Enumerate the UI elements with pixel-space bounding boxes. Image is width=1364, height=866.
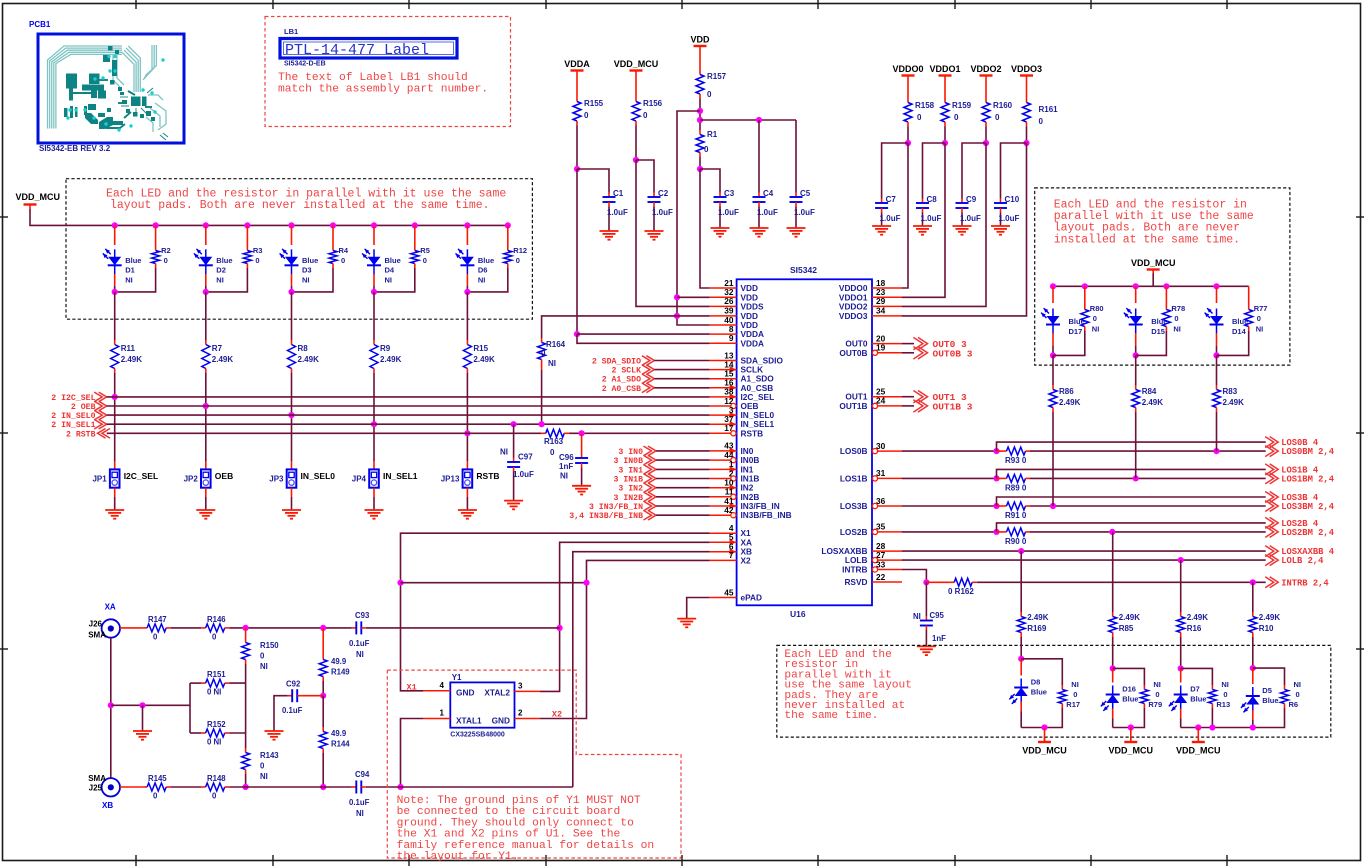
power flag VDD_MCU under D7 — [1176, 724, 1221, 755]
svg-text:C7: C7 — [886, 195, 897, 204]
wire JP2 to ground — [205, 488, 207, 510]
U16 pin 1 IN1 — [710, 459, 754, 474]
net label A0_CSB — [602, 383, 655, 394]
svg-text:1: 1 — [440, 709, 445, 718]
svg-text:0: 0 — [1155, 690, 1159, 699]
resistor R160 — [982, 80, 1013, 127]
wire VDDA net down to U16 pins 8/9 — [574, 126, 710, 344]
U16 pin 4 X1 — [710, 523, 751, 538]
svg-text:0: 0 — [423, 256, 427, 265]
resistor R91 0 — [1002, 502, 1030, 520]
svg-text:R89 0: R89 0 — [1005, 483, 1027, 492]
capacitor C10 — [994, 195, 1020, 226]
U16 pin 10 IN2 — [710, 478, 754, 493]
svg-text:45: 45 — [724, 587, 734, 597]
resistor R164 (0, NI) VDD to IN_SEL1 — [538, 338, 566, 427]
U16 pin 28 LOSXAXBB — [821, 541, 902, 556]
power flag VDD_MCU (top-right) — [1131, 258, 1176, 274]
svg-text:34: 34 — [876, 306, 886, 316]
svg-text:R143: R143 — [260, 751, 279, 760]
svg-text:9: 9 — [729, 333, 734, 343]
svg-text:R163: R163 — [544, 437, 564, 446]
svg-text:Note: The ground pins of Y1 M: Note: The ground pins of Y1 MUST NOT — [397, 795, 641, 807]
resistor R13 (NI 0) — [1181, 668, 1230, 727]
svg-text:0: 0 — [1257, 314, 1261, 323]
Y1 pin 4 — [423, 681, 450, 691]
wire ePAD to ground — [687, 598, 710, 619]
wire net INTRB — [902, 570, 1266, 586]
svg-text:D8: D8 — [1031, 678, 1041, 687]
U16 pin 27 LOLB — [845, 550, 902, 565]
net label OUT0B (right) — [902, 347, 973, 360]
svg-text:VDDO0: VDDO0 — [892, 64, 923, 74]
svg-text:R155: R155 — [584, 99, 604, 108]
op-amp U16 Si5342 IC body — [737, 265, 872, 619]
svg-text:2.49K: 2.49K — [380, 355, 402, 364]
wire net OEB bus — [107, 405, 710, 407]
wire JP3 to ground — [291, 488, 293, 510]
wire LED column to R15 — [466, 292, 468, 340]
svg-text:3 IN2: 3 IN2 — [618, 485, 643, 494]
power flag VDDA — [564, 59, 590, 75]
U16 pin 23 VDDO1 — [839, 287, 902, 302]
svg-text:NI: NI — [478, 275, 486, 284]
svg-text:C10: C10 — [1005, 195, 1020, 204]
resistor R80 (0 NI) — [1053, 283, 1104, 355]
wire net IN_SEL0 bus — [107, 414, 710, 416]
wire R11 to bus and jumper — [112, 373, 118, 469]
resistor R158 — [904, 80, 935, 127]
resistor R1 — [696, 130, 718, 157]
LED D16 (blue) — [1101, 668, 1139, 727]
svg-text:0: 0 — [1073, 690, 1077, 699]
svg-text:I2C_SEL: I2C_SEL — [124, 471, 159, 481]
svg-text:D7: D7 — [1190, 685, 1200, 694]
power flag VDDO2 — [970, 64, 1001, 80]
svg-text:0.1uF: 0.1uF — [282, 706, 303, 715]
wire R169 to LED pair — [1018, 637, 1024, 662]
resistor R8 2.49K — [288, 340, 320, 373]
U16 pin 12 OEB — [710, 396, 759, 411]
svg-text:R1: R1 — [707, 130, 718, 139]
svg-text:0: 0 — [255, 256, 259, 265]
svg-text:NI: NI — [500, 448, 508, 457]
power flag VDDO1 — [929, 64, 960, 80]
svg-text:R2: R2 — [161, 246, 171, 255]
U16 pin 40 VDD — [710, 315, 758, 330]
svg-text:C9: C9 — [966, 195, 977, 204]
svg-text:D14: D14 — [1232, 327, 1247, 336]
svg-text:X1: X1 — [407, 683, 417, 693]
svg-text:NI: NI — [216, 275, 224, 284]
wire IN0 to U16 — [656, 450, 710, 452]
resistor R10 2.49K — [1249, 612, 1281, 637]
svg-text:0: 0 — [1223, 690, 1227, 699]
svg-text:R147: R147 — [148, 615, 167, 624]
U16 pin 30 LOS0B — [840, 441, 902, 456]
wire LED column to R8 — [291, 292, 293, 340]
jumper JP4 — [352, 469, 418, 487]
net label IN0B — [614, 455, 656, 466]
U16 pin 33 INTRB — [842, 559, 902, 574]
svg-text:C4: C4 — [763, 189, 774, 198]
U16 pin 20 OUT0 — [845, 333, 902, 348]
svg-text:VDD: VDD — [690, 35, 710, 45]
svg-text:R158: R158 — [915, 101, 935, 110]
svg-text:1.0uF: 1.0uF — [607, 208, 628, 217]
svg-text:Blue: Blue — [125, 256, 141, 265]
svg-text:VDDO3: VDDO3 — [839, 311, 868, 321]
svg-text:R144: R144 — [331, 740, 350, 749]
svg-text:NI: NI — [1173, 325, 1181, 334]
U16 pin 11 IN2B — [710, 487, 760, 502]
connector J26 SMA (XA) — [88, 603, 120, 640]
svg-text:JP1: JP1 — [92, 475, 107, 484]
wire net LOS0B pair — [902, 442, 1266, 454]
svg-text:2.49K: 2.49K — [298, 355, 320, 364]
net label SCLK — [612, 365, 655, 376]
resistor R89 0 — [1002, 474, 1030, 492]
net label OUT1B (right) — [902, 400, 973, 413]
capacitor C95 (NI) on INTRB — [913, 582, 946, 646]
svg-text:1.0uF: 1.0uF — [999, 214, 1020, 223]
svg-text:C1: C1 — [613, 189, 624, 198]
svg-text:R11: R11 — [121, 344, 136, 353]
wire R16 to LED pair — [1178, 637, 1184, 672]
net label LOSXAXBB — [1265, 546, 1335, 558]
svg-text:0: 0 — [550, 448, 555, 457]
U16 pin 36 LOS3B — [840, 496, 902, 511]
U16 pin 14 SCLK — [710, 359, 763, 374]
svg-text:VDD_MCU: VDD_MCU — [1022, 746, 1067, 756]
svg-text:Blue: Blue — [1190, 695, 1206, 704]
resistor R15 2.49K — [463, 340, 495, 373]
wire R86 column — [1052, 355, 1054, 385]
svg-text:R84: R84 — [1142, 387, 1157, 396]
svg-text:0: 0 — [1039, 117, 1044, 126]
svg-text:OUT0B: OUT0B — [839, 348, 867, 358]
net label OUT1 (right) — [902, 391, 967, 404]
U16 pin 2 IN1B — [710, 468, 760, 483]
svg-text:The text of Label LB1 should: The text of Label LB1 should — [278, 72, 468, 84]
svg-text:2.49K: 2.49K — [1119, 613, 1141, 622]
wire mid rail to ground — [111, 702, 190, 731]
svg-text:NI: NI — [385, 275, 393, 284]
svg-text:R80: R80 — [1090, 304, 1104, 313]
svg-text:VDDO1: VDDO1 — [929, 64, 960, 74]
svg-text:R10: R10 — [1259, 624, 1274, 633]
LED D6 (blue, NI) — [456, 222, 495, 292]
ground under C1 — [600, 231, 619, 240]
svg-text:NI: NI — [356, 809, 364, 818]
U16 pin 32 VDD — [710, 287, 758, 302]
svg-text:2 IN_SEL1: 2 IN_SEL1 — [51, 421, 95, 430]
svg-text:2.49K: 2.49K — [212, 355, 234, 364]
svg-text:SI5342: SI5342 — [790, 265, 817, 275]
svg-text:R148: R148 — [207, 774, 226, 783]
svg-text:0: 0 — [212, 633, 217, 642]
svg-text:2 A0_CSB: 2 A0_CSB — [602, 385, 641, 394]
resistor R93 0 — [1002, 447, 1030, 465]
wire R86 to LOS row — [1052, 412, 1054, 506]
net label IN3B/FB_INB — [569, 510, 656, 521]
svg-text:R77: R77 — [1254, 304, 1268, 313]
svg-text:NI: NI — [260, 662, 268, 671]
svg-text:0: 0 — [153, 792, 158, 801]
wire XB net (U16 pin6 down to XB line) — [573, 552, 710, 787]
svg-text:LOS0BM 2,4: LOS0BM 2,4 — [1281, 447, 1335, 457]
resistor R149 49.9 — [319, 628, 350, 699]
svg-text:VDDO3: VDDO3 — [1011, 64, 1042, 74]
svg-text:1.0uF: 1.0uF — [718, 208, 739, 217]
svg-text:49.9: 49.9 — [331, 657, 347, 666]
svg-text:0.1uF: 0.1uF — [349, 639, 370, 648]
svg-text:R145: R145 — [148, 774, 167, 783]
net label IN1 — [618, 465, 656, 476]
U16 pin 17 RSTB — [710, 423, 763, 438]
svg-text:0: 0 — [260, 762, 265, 771]
wire A0_CSB to U16 — [654, 387, 709, 389]
svg-text:22: 22 — [876, 572, 886, 582]
wire R10 column from net — [1252, 582, 1254, 612]
wire LED column to R11 — [114, 292, 116, 340]
svg-text:2 RSTB: 2 RSTB — [66, 430, 96, 439]
LED D7 (blue) — [1169, 668, 1207, 727]
resistor R155 — [573, 75, 604, 126]
U16 pin 41 IN3/FB_IN — [710, 496, 780, 511]
net label IN_SEL1 (left) — [51, 419, 106, 430]
resistor R17 (NI 0) — [1021, 659, 1080, 728]
power flag VDD — [690, 35, 710, 51]
svg-text:XA: XA — [105, 603, 116, 612]
svg-text:RSTB: RSTB — [476, 471, 499, 481]
svg-text:SMA: SMA — [88, 631, 106, 640]
note box: LED/resistor shared pads (top-left) — [66, 179, 532, 320]
power flag VDDO3 — [1011, 64, 1042, 80]
svg-text:C95: C95 — [930, 611, 945, 620]
LED D15 (blue) — [1124, 283, 1168, 358]
svg-text:2.49K: 2.49K — [1259, 613, 1281, 622]
net label IN_SEL0 (left) — [51, 410, 106, 421]
svg-text:NI: NI — [913, 612, 921, 621]
net label RSTB (left) — [66, 429, 110, 440]
svg-text:R83: R83 — [1223, 387, 1238, 396]
svg-text:C93: C93 — [355, 611, 370, 620]
U16 pin 13 SDA_SDIO — [710, 350, 784, 365]
svg-text:R149: R149 — [331, 668, 350, 677]
svg-text:C94: C94 — [355, 770, 370, 779]
svg-text:INTRB 2,4: INTRB 2,4 — [1281, 578, 1329, 588]
resistor R151 (0 NI) — [190, 670, 246, 697]
svg-text:D4: D4 — [385, 266, 395, 275]
LED D1 (blue, NI) — [103, 222, 142, 292]
net label OUT0 (right) — [902, 337, 967, 350]
svg-text:NI: NI — [548, 359, 556, 368]
svg-text:29: 29 — [876, 296, 886, 306]
svg-text:SMA: SMA — [88, 774, 106, 783]
wire IN3B/FB_INB to U16 — [656, 514, 710, 516]
wire bottom rail D7-D5 link — [1209, 724, 1256, 730]
U16 pin 18 VDDO0 — [839, 278, 902, 293]
U16 pin 3 IN_SEL0 — [710, 405, 775, 420]
wire R15 to bus and jumper — [464, 373, 470, 469]
svg-text:LOS1B: LOS1B — [840, 473, 868, 483]
resistor R7 2.49K — [202, 340, 234, 373]
svg-text:2.49K: 2.49K — [121, 355, 143, 364]
svg-text:R13: R13 — [1216, 700, 1230, 709]
svg-text:VDD_MCU: VDD_MCU — [1109, 746, 1154, 756]
svg-text:R15: R15 — [473, 344, 488, 353]
wire VDD net junctions — [542, 99, 796, 339]
resistor R2 — [112, 222, 171, 295]
svg-text:VDDS: VDDS — [741, 301, 765, 311]
note box: LED/resistor shared pads (bottom-right) — [777, 645, 1331, 737]
capacitor C8 — [916, 195, 942, 226]
svg-text:3 IN2B: 3 IN2B — [614, 494, 644, 503]
svg-text:IN3B/FB_INB: IN3B/FB_INB — [741, 510, 792, 520]
svg-text:Y1: Y1 — [452, 673, 462, 682]
PCB1 layout preview — [29, 20, 184, 153]
svg-text:R8: R8 — [298, 344, 309, 353]
capacitor C5 — [790, 189, 816, 228]
svg-text:2: 2 — [518, 709, 523, 718]
svg-text:0: 0 — [1296, 690, 1300, 699]
svg-text:JP4: JP4 — [352, 475, 367, 484]
wire R8 to bus and jumper — [288, 373, 294, 469]
ground under C7 — [872, 226, 891, 235]
svg-text:C96: C96 — [559, 453, 574, 462]
svg-text:Blue: Blue — [302, 256, 318, 265]
svg-text:0: 0 — [1174, 314, 1178, 323]
svg-text:R90 0: R90 0 — [1005, 537, 1027, 546]
svg-text:R5: R5 — [420, 246, 430, 255]
net label LOS3BM — [1265, 501, 1335, 513]
U16 pin 7 X2 — [710, 550, 751, 565]
wire net LOLB — [902, 557, 1266, 563]
wire VDDO3 net to U16 — [902, 127, 1030, 316]
resistor R152 (0 NI) — [190, 720, 246, 747]
svg-text:LOS1BM 2,4: LOS1BM 2,4 — [1281, 474, 1335, 484]
U16 pin 21 VDD — [710, 278, 758, 293]
note box: LED/resistor shared pads (top-right) — [1035, 188, 1290, 365]
wire XA net (U16 pin5 to Y1 XTAL2) — [540, 542, 710, 691]
U16 pin 19 OUT0B — [839, 343, 902, 358]
svg-text:R152: R152 — [207, 720, 226, 729]
svg-text:OUT0B 3: OUT0B 3 — [933, 348, 973, 359]
wire net LOS3B pair — [902, 497, 1266, 509]
resistor R145 — [143, 774, 171, 801]
svg-text:be connected to the circuit bo: be connected to the circuit board — [397, 806, 621, 818]
wire net I2C_SEL bus — [107, 396, 710, 398]
svg-text:0: 0 — [260, 652, 265, 661]
U16 pin 38 I2C_SEL — [710, 387, 774, 402]
resistor R83 2.49K — [1213, 385, 1245, 412]
U16 pin 34 VDDO3 — [839, 306, 902, 321]
svg-text:VDD_MCU: VDD_MCU — [1131, 258, 1176, 268]
resistor R162 0 — [948, 578, 977, 596]
svg-text:SI5342-EB REV 3.2: SI5342-EB REV 3.2 — [39, 144, 111, 153]
svg-text:layout pads. Both are never i: layout pads. Both are never installed at… — [110, 199, 490, 212]
svg-text:1.0uF: 1.0uF — [960, 214, 981, 223]
resistor R147 — [143, 615, 171, 642]
ground under C96 — [572, 486, 591, 495]
net label LOS0BM — [1265, 446, 1335, 458]
svg-text:D6: D6 — [478, 266, 488, 275]
wire R84 to LOS row — [1135, 412, 1137, 478]
svg-text:D1: D1 — [125, 266, 135, 275]
wire IN1 to U16 — [656, 468, 710, 470]
ground under JP4 — [365, 510, 384, 519]
net label LOS2B — [1265, 517, 1319, 529]
net label LOS3B — [1265, 492, 1319, 504]
U16 pin 44 IN0B — [710, 450, 760, 465]
wire X1 net (U16 pin4 to Y1 GND) — [397, 533, 709, 691]
svg-text:R169: R169 — [1027, 624, 1047, 633]
svg-text:R146: R146 — [207, 615, 226, 624]
svg-text:NI: NI — [1221, 680, 1229, 689]
connector J25 SMA (XB) — [88, 774, 120, 810]
capacitor C1 — [603, 189, 629, 231]
svg-text:2.49K: 2.49K — [1027, 613, 1049, 622]
svg-text:X2: X2 — [552, 710, 562, 720]
svg-text:D16: D16 — [1122, 685, 1136, 694]
net label X2 — [552, 710, 562, 720]
wire SDA_SDIO to U16 — [654, 360, 709, 362]
svg-text:1.0uF: 1.0uF — [652, 208, 673, 217]
ground under C5 — [787, 228, 806, 237]
svg-text:R150: R150 — [260, 641, 279, 650]
svg-text:match the assembly part number: match the assembly part number. — [278, 84, 488, 96]
U16 pin 39 VDD — [710, 306, 758, 321]
capacitor C2 — [648, 189, 674, 231]
net label SDA_SDIO — [592, 356, 655, 367]
U16 pin 25 OUT1 — [845, 387, 902, 402]
svg-text:LOS3BM 2,4: LOS3BM 2,4 — [1281, 502, 1335, 512]
svg-text:2.49K: 2.49K — [1223, 398, 1245, 407]
svg-text:OEB: OEB — [215, 471, 233, 481]
svg-text:RSVD: RSVD — [844, 577, 867, 587]
jumper JP1 — [92, 469, 158, 487]
svg-text:D15: D15 — [1151, 327, 1165, 336]
net label LOS0B — [1265, 437, 1319, 449]
LED D14 (blue) — [1205, 283, 1249, 358]
svg-text:RSTB: RSTB — [741, 428, 764, 438]
svg-text:3 IN1B: 3 IN1B — [614, 476, 644, 485]
svg-text:XTAL1: XTAL1 — [456, 715, 482, 725]
ground under JP1 — [105, 510, 124, 519]
svg-text:R16: R16 — [1187, 624, 1202, 633]
wire VDD_MCU rail (top-right) — [1053, 274, 1249, 287]
jumper JP3 — [269, 469, 335, 487]
resistor R156 — [632, 75, 663, 126]
svg-text:Blue: Blue — [1122, 695, 1138, 704]
power flag VDD_MCU under D8 — [1022, 724, 1067, 755]
svg-text:26: 26 — [724, 296, 734, 306]
wire VDDO0 net to U16 — [882, 127, 912, 289]
net label LOS2BM — [1265, 526, 1335, 538]
svg-text:R17: R17 — [1066, 700, 1080, 709]
capacitor C97 (NI) on IN_SEL1 — [500, 421, 534, 501]
svg-text:2 IN_SEL0: 2 IN_SEL0 — [51, 412, 95, 421]
svg-text:1.0uF: 1.0uF — [794, 208, 815, 217]
resistor R157 — [696, 50, 727, 99]
wire JP13 to ground — [466, 488, 468, 510]
wire R84 column — [1135, 355, 1137, 385]
svg-text:C8: C8 — [927, 195, 938, 204]
svg-text:3 IN0B: 3 IN0B — [614, 457, 644, 466]
svg-text:LOS2BM 2,4: LOS2BM 2,4 — [1281, 528, 1335, 538]
svg-text:0.1uF: 0.1uF — [349, 798, 370, 807]
